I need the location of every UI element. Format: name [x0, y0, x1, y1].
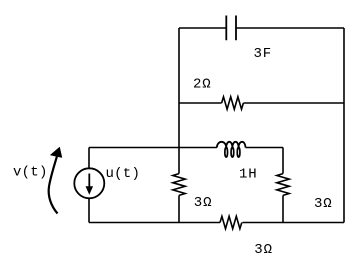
wire right vertical: [343, 28, 345, 223]
v(t) reference arrow curve: [49, 157, 58, 214]
v(t) arrowhead: [50, 147, 62, 157]
wire bottom left: [89, 222, 220, 224]
wire row2 left: [179, 102, 222, 104]
wire row3 left: [89, 147, 217, 149]
current source arrowhead: [86, 187, 92, 194]
wire top-right segment: [236, 27, 344, 29]
svg-text:3Ω: 3Ω: [314, 196, 333, 212]
svg-text:3Ω: 3Ω: [254, 242, 273, 258]
svg-text:2Ω: 2Ω: [193, 77, 212, 93]
wire row3 right: [246, 147, 284, 149]
svg-text:1H: 1H: [239, 166, 258, 182]
svg-text:v(t): v(t): [13, 165, 48, 181]
wire mid vertical lower: [282, 195, 284, 222]
wire bottom right: [242, 222, 344, 224]
resistor R2 2ohm zigzag: [222, 97, 244, 109]
current source U1 circle: [74, 168, 104, 198]
current source arrow shaft: [88, 174, 90, 188]
wire source bottom: [88, 198, 90, 222]
svg-text:3F: 3F: [254, 46, 273, 62]
inductor L1 loops: [225, 147, 228, 157]
wire left vertical lower: [178, 195, 180, 222]
resistor R3 3ohm mid vertical zigzag: [277, 174, 289, 196]
wire source top: [88, 148, 90, 169]
wire top-left segment: [179, 27, 226, 29]
wire mid vertical upper: [282, 148, 284, 174]
wire row2 right: [243, 102, 344, 104]
svg-text:3Ω: 3Ω: [194, 195, 213, 211]
svg-text:u(t): u(t): [106, 166, 141, 182]
resistor R4 3ohm bottom zigzag: [220, 216, 242, 228]
wire left vertical upper: [178, 28, 180, 174]
resistor R1 3ohm left vertical zigzag: [173, 174, 185, 196]
inductor L1 humps: [217, 142, 246, 148]
capacitor C1 plates: [226, 16, 236, 41]
